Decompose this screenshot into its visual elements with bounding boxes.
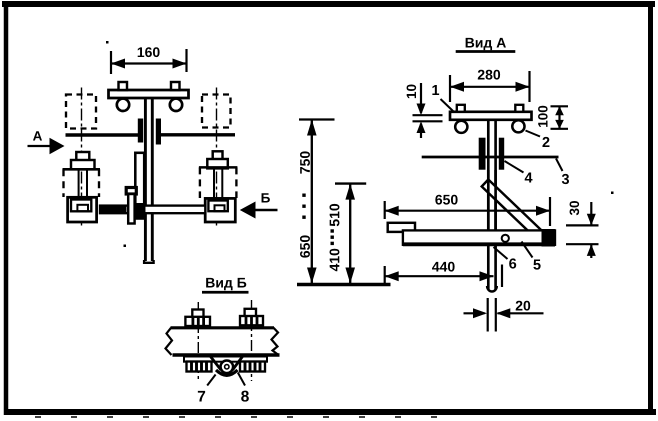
crossbar edge-on (view A)	[422, 156, 559, 159]
dim 650...750	[299, 120, 335, 284]
connecting rod	[100, 206, 205, 214]
left clamp nut (view B)	[187, 362, 212, 372]
left lamp bottom box	[68, 197, 97, 222]
dim 650 line	[385, 206, 550, 216]
dim 20 label	[516, 301, 531, 311]
border frame right	[648, 2, 653, 414]
clamp strip (view B)	[184, 357, 267, 362]
dim 160 extension lines	[111, 49, 187, 74]
left lamp stem	[76, 152, 89, 161]
left flange (view A)	[479, 138, 486, 170]
arm step plate	[388, 223, 415, 232]
border frame top	[2, 1, 655, 7]
beam top edge (view B)	[171, 326, 275, 329]
handle knob stem	[128, 194, 134, 224]
dim 410...510	[335, 184, 366, 284]
bolt centerline right (view B)	[251, 300, 253, 381]
dim 280 label	[478, 70, 500, 80]
bolt centerline left (view B)	[197, 302, 199, 381]
view arrow B	[240, 202, 278, 219]
diagonal brace	[482, 180, 546, 242]
dim 280 line	[450, 82, 530, 92]
dim 440 extension lines	[385, 265, 502, 288]
handle knob cap	[126, 188, 136, 195]
right flange on mast	[156, 119, 161, 145]
part label 6	[494, 247, 517, 269]
dim 10 line	[413, 83, 443, 138]
title View B	[202, 278, 249, 292]
phantom lamp box right (dashed)	[202, 95, 231, 128]
dim 100	[551, 106, 569, 129]
mast over brace	[488, 170, 495, 230]
right lamp stem	[213, 151, 223, 160]
dim 280 extension lines	[450, 71, 530, 102]
arm (view A)	[403, 229, 555, 247]
slider channel on mast	[135, 153, 144, 219]
trolley top plate (front view)	[109, 90, 189, 98]
part label 1	[432, 85, 453, 111]
speck right	[611, 192, 614, 195]
dim 20 line	[464, 308, 544, 318]
view arrow B label	[262, 193, 270, 202]
left roller	[117, 99, 129, 111]
title View A	[456, 38, 516, 52]
crossbar left segment	[66, 133, 139, 136]
floor baseline	[297, 283, 391, 287]
dim 30 label	[570, 201, 580, 215]
speck	[106, 41, 109, 44]
part label 7	[198, 375, 216, 402]
right lamp bottom box	[205, 198, 235, 222]
right roller	[170, 99, 182, 111]
speck below mast	[124, 245, 127, 248]
beam bottom edge (view B)	[173, 353, 280, 356]
right bolt stub on plate	[171, 82, 180, 90]
right lamp body	[199, 167, 238, 200]
phantom lamp box left (dashed)	[66, 95, 96, 129]
left bolt nut (view B)	[185, 317, 210, 326]
part label 8	[238, 373, 249, 402]
dim 30	[566, 202, 599, 258]
left roller (view A)	[455, 121, 467, 133]
dim 650 extension lines	[385, 197, 550, 226]
part label 2	[526, 131, 550, 148]
dim 410...510 label	[330, 204, 340, 271]
left bolt stub (view A)	[457, 105, 465, 112]
part label 5	[522, 242, 541, 270]
beam right break line	[272, 328, 279, 355]
beam left break line	[166, 328, 173, 355]
dim 10 label	[407, 85, 417, 99]
dim 160 line	[111, 59, 187, 69]
border frame left	[4, 2, 9, 415]
centerline right lamp	[216, 88, 218, 227]
dim 100 label	[538, 106, 548, 127]
right bolt cap (view B)	[245, 309, 256, 317]
dim 20 extension lines	[488, 298, 496, 332]
border frame bottom	[4, 412, 656, 417]
right bolt stub (view A)	[515, 105, 523, 112]
right roller (view A)	[512, 120, 524, 132]
part label 3	[556, 159, 569, 185]
dim 440 label	[432, 262, 455, 272]
centerline left lamp	[81, 88, 83, 227]
left bolt stub on plate	[119, 82, 128, 90]
right flange (view A)	[499, 138, 504, 170]
left lamp tier	[71, 160, 95, 169]
right bolt nut (view B)	[240, 316, 263, 325]
mast (front view)	[144, 98, 154, 263]
left bolt cap (view B)	[192, 310, 203, 318]
top plate (view A)	[450, 112, 532, 120]
left lamp body	[63, 169, 101, 199]
dim 650 label	[435, 195, 457, 205]
part label 4	[505, 161, 533, 183]
mast (view A)	[487, 120, 497, 292]
right lamp tier	[207, 159, 228, 168]
hook ring (view B)	[221, 361, 234, 374]
V hook (view B)	[211, 357, 243, 376]
view arrow A label	[33, 131, 42, 140]
dim 650...750 label	[300, 151, 310, 257]
right clamp nut (view B)	[240, 362, 265, 372]
left flange on mast	[138, 119, 143, 143]
dim 440 line	[385, 271, 494, 281]
crossbar right segment	[161, 133, 235, 136]
hole in arm	[502, 235, 509, 242]
view arrow A	[28, 138, 65, 154]
dim 160 label	[138, 47, 160, 57]
